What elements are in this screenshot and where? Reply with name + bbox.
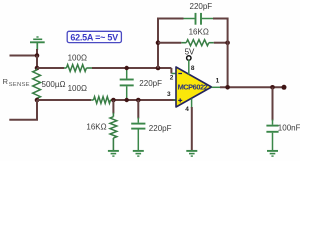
junction dot feedback-left [156,66,161,71]
svg-text:16KΩ: 16KΩ [189,27,209,36]
wire 16K row right [214,42,228,44]
svg-text:220pF: 220pF [190,2,213,11]
svg-text:2: 2 [170,74,174,81]
svg-text:MCP6022: MCP6022 [178,83,208,92]
wire top rail mid [92,67,171,69]
wire bottom rail left [37,99,91,101]
svg-text:100Ω: 100Ω [68,53,87,62]
wire vertical A-B [36,56,38,69]
junction dot output [225,85,230,90]
wire C4 upper [272,87,274,120]
wire top-left stub [10,55,38,57]
resistor R_SENSE 500uΩ [33,69,41,100]
resistor R2 100Ω [91,97,113,104]
junction dot 16K row left [156,40,161,45]
junction dot rail end [282,85,287,90]
wire 16K row left [158,42,181,44]
wire ground stem to node [36,49,38,56]
annotation box 62.5A =~ 5V [67,31,121,42]
wire pin8 (5V to op-amp) [188,60,190,75]
svg-text:R: R [3,77,9,86]
svg-text:500µΩ: 500µΩ [42,80,66,89]
junction dot B [35,66,40,71]
svg-text:100nF: 100nF [278,124,300,133]
wire pin1 green stub [212,86,221,88]
capacitor C2 220pF (to ground) [131,118,145,151]
svg-text:3: 3 [167,91,171,98]
svg-text:4: 4 [185,106,189,113]
svg-text:8: 8 [191,65,195,72]
op-amp U1 MCP6022 [176,67,212,107]
junction dot R3 top [111,98,116,103]
svg-text:1: 1 [216,78,220,85]
wire C2 upper [137,100,139,119]
junction dot C4 branch [270,85,275,90]
junction dot 16K row right [225,40,230,45]
resistor R4 16KΩ (feedback) [181,40,214,46]
ground (C2) [133,151,144,156]
svg-text:220pF: 220pF [149,124,172,133]
capacitor C1 220pF (between rails) [120,68,134,100]
minus mark pin2 [178,73,182,75]
wire bottom-left elbow [9,100,37,120]
wire feedback right vertical [213,19,228,88]
wire pin3 green stub [174,99,177,101]
svg-text:5V: 5V [185,47,195,56]
ground (C4) [267,151,278,156]
junction dot C [35,98,40,103]
wire bottom rail right [113,99,176,101]
junction dot C1 top [125,66,129,70]
resistor R3 16KΩ (to ground) [110,113,117,150]
power terminal 5V [187,56,191,60]
plus mark pin3 [178,98,182,102]
ground (top-left, inverted) [30,37,45,50]
svg-text:220pF: 220pF [139,79,162,88]
svg-text:100Ω: 100Ω [68,84,87,93]
junction dot A [35,53,40,58]
capacitor C3 220pF (feedback top) [184,13,214,25]
wire pin2 jog [170,68,172,74]
capacitor C4 100nF [266,120,278,151]
wire top rail left [37,67,64,69]
svg-text:16KΩ: 16KΩ [86,123,106,132]
resistor R1 100Ω [64,65,92,72]
junction dot C2 top [136,98,141,103]
svg-text:62.5A =~ 5V: 62.5A =~ 5V [70,33,118,43]
svg-text:SENSE: SENSE [9,82,30,88]
wire R3 upper [112,100,114,114]
wire pin2 green stub [171,73,176,75]
ground (pin4) [186,151,197,156]
wire pin4 stub [191,99,193,108]
wire pin4 to ground [191,107,193,150]
wire feedback left vertical [158,19,184,69]
wire output rail [220,86,284,88]
junction dot C1 bottom [125,98,129,102]
ground (R3) [108,151,119,156]
